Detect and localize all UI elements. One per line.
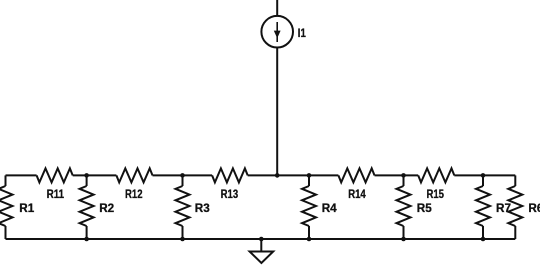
resistor R4 (302, 175, 337, 239)
svg-text:R1: R1 (19, 202, 34, 215)
current source I1 (261, 0, 306, 48)
svg-text:R4: R4 (322, 202, 337, 215)
node R7-top (481, 173, 486, 178)
svg-text:R6: R6 (528, 202, 540, 215)
resistor R15 (418, 168, 454, 201)
resistor R1 (0, 175, 35, 239)
svg-text:R12: R12 (125, 188, 143, 201)
svg-text:I1: I1 (298, 27, 306, 40)
svg-text:R11: R11 (47, 188, 65, 201)
resistor R7 (476, 175, 511, 239)
svg-text:R2: R2 (99, 202, 114, 215)
resistor R14 (338, 168, 374, 201)
wire (276, 48, 278, 176)
node R2-top (84, 173, 89, 178)
node R3-top (180, 173, 185, 178)
node gnd (259, 237, 264, 242)
wire (375, 174, 419, 176)
resistor R13 (212, 168, 248, 201)
node R7-bot (481, 237, 486, 242)
resistor R12 (116, 168, 152, 201)
node R4-bot (307, 237, 312, 242)
resistor R11 (37, 168, 73, 201)
node R3-bot (180, 237, 185, 242)
resistor R6 (508, 175, 540, 239)
svg-text:R13: R13 (221, 188, 239, 201)
wire (73, 174, 117, 176)
svg-text:R15: R15 (426, 188, 444, 201)
node R2-bot (84, 237, 89, 242)
node R4-top (307, 173, 312, 178)
wire (454, 174, 515, 176)
wire (6, 238, 516, 240)
svg-text:R5: R5 (417, 202, 432, 215)
wire (248, 174, 339, 176)
node R5-bot (401, 237, 406, 242)
resistor R2 (80, 175, 115, 239)
wire (153, 174, 213, 176)
node I1-rail (275, 173, 280, 178)
svg-text:R14: R14 (348, 188, 366, 201)
ground (250, 239, 274, 263)
svg-text:R3: R3 (195, 202, 210, 215)
resistor R5 (397, 175, 433, 239)
node R5-top (401, 173, 406, 178)
resistor R3 (176, 175, 211, 239)
wire (6, 174, 37, 176)
